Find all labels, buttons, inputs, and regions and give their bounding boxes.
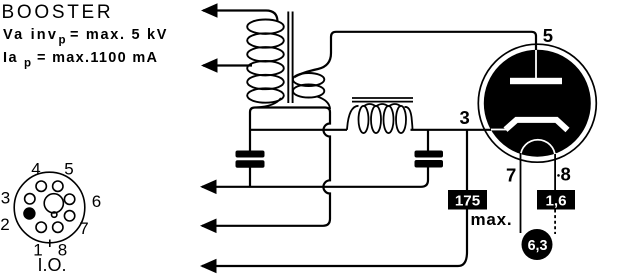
svg-text:p: p xyxy=(24,58,31,70)
svg-text:1,6: 1,6 xyxy=(545,192,566,209)
svg-text:3: 3 xyxy=(1,189,10,208)
svg-text:8: 8 xyxy=(561,164,571,185)
svg-text:4: 4 xyxy=(31,160,40,179)
svg-text:5: 5 xyxy=(543,25,553,46)
svg-text:p: p xyxy=(59,35,66,47)
svg-text:Va inv: Va inv xyxy=(3,27,58,43)
svg-text:7: 7 xyxy=(506,164,516,185)
svg-text:2: 2 xyxy=(0,215,9,234)
svg-text:I.O.: I.O. xyxy=(37,255,66,275)
svg-text:Ia: Ia xyxy=(3,50,18,66)
svg-text:175: 175 xyxy=(455,192,481,209)
svg-text:5: 5 xyxy=(64,160,73,179)
svg-text:BOOSTER: BOOSTER xyxy=(2,2,114,23)
svg-text:6,3: 6,3 xyxy=(528,238,548,254)
svg-text:6: 6 xyxy=(92,192,101,211)
svg-text:max.: max. xyxy=(471,210,513,229)
svg-text:= max. 5 kV: = max. 5 kV xyxy=(70,27,168,43)
svg-text:= max.1100 mA: = max.1100 mA xyxy=(37,50,158,66)
svg-text:7: 7 xyxy=(79,219,88,238)
svg-text:3: 3 xyxy=(460,107,470,128)
